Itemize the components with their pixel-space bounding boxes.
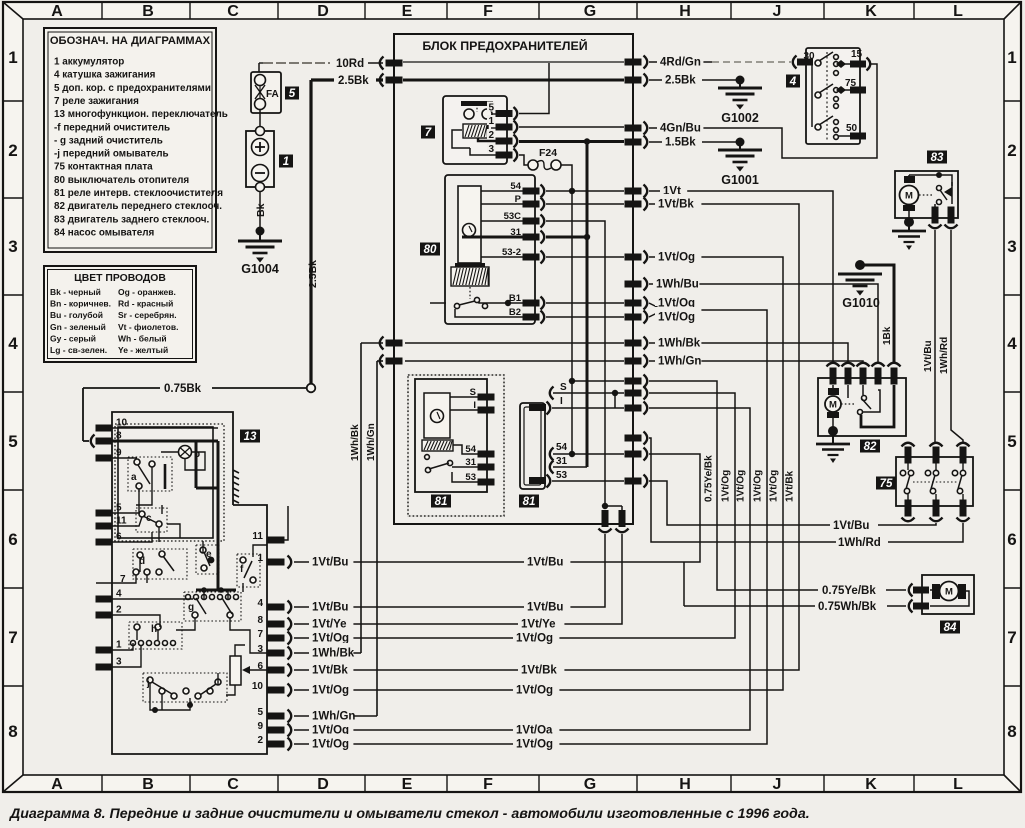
relay 7 pin 3 (487, 143, 495, 153)
svg-text:1Vt/Bu: 1Vt/Bu (312, 557, 348, 569)
label 1Vt/Bu left (309, 597, 353, 610)
svg-text:1: 1 (283, 156, 289, 168)
svg-text:1Wh/Rd: 1Wh/Rd (838, 537, 881, 549)
svg-text:F24: F24 (539, 147, 557, 159)
label 13 (240, 430, 260, 443)
junction F24 bus at 0.75Ye/Bk branch (569, 378, 575, 384)
svg-text:2: 2 (1007, 141, 1016, 160)
switch 13 resistor (230, 656, 241, 685)
svg-text:B: B (142, 776, 154, 793)
switch 13 contact d (133, 549, 187, 579)
connector fuse box right edge y303 1Vt/Og (625, 300, 642, 307)
svg-text:5: 5 (8, 432, 17, 451)
connector fuse box right edge y361 1Wh/Gn (625, 358, 642, 365)
svg-text:a: a (131, 472, 137, 483)
label 1Vt/Bu left (309, 552, 353, 565)
ground 83 motor (904, 217, 914, 227)
junction relay7 pin2 / vertical (584, 138, 590, 144)
svg-text:8: 8 (8, 722, 17, 741)
svg-text:I: I (473, 400, 476, 411)
svg-text:C: C (227, 776, 239, 793)
svg-text:6: 6 (1007, 530, 1016, 549)
label 81 socket (519, 495, 539, 508)
connector inline right below fuse box (619, 510, 626, 527)
connector fuse box right edge y204 1Vt/Bk (625, 201, 642, 208)
75 top pin x936 (930, 443, 943, 447)
wire 4Rd/Gn to ignition switch (649, 61, 712, 63)
84 pin 2 (909, 600, 913, 613)
switch 13 right pin 1 (268, 559, 285, 566)
ignition switch terminal 30 (793, 56, 797, 69)
label 84 (940, 621, 960, 634)
svg-text:2: 2 (257, 735, 263, 746)
wire 1Wh/Gn across fuse box (405, 360, 624, 362)
interval wiper relay 81 (408, 375, 504, 516)
wire relay7 pin2 to 1.5Bk (thick) (519, 140, 624, 143)
wire 1Vt/Og from switch 13 y744 (294, 743, 544, 745)
svg-text:1Vt/Bk: 1Vt/Bk (521, 665, 557, 677)
connector 81 socket (520, 403, 545, 489)
svg-text:D: D (317, 3, 329, 20)
connector fuse box right edge y191 1Vt (625, 188, 642, 195)
label 0.75Wh/Bk (815, 597, 887, 610)
svg-text:G1002: G1002 (721, 111, 759, 125)
wire 1Wh/Gn to wiper motor 82 pin3 (649, 361, 863, 364)
svg-text:6: 6 (8, 530, 17, 549)
connector 2.5Bk at fuse box left edge (311, 78, 383, 81)
svg-text:81: 81 (435, 496, 448, 508)
heater switch 80 (445, 175, 535, 324)
switch 13 left pin 3 (96, 664, 113, 671)
svg-text:4 катушка зажигания: 4 катушка зажигания (54, 70, 156, 81)
wire 81 pin I (552, 407, 624, 409)
svg-text:Ye - желтый: Ye - желтый (118, 345, 168, 355)
label 4Rd/Gn (657, 52, 703, 65)
svg-text:E: E (402, 776, 413, 793)
svg-text:81: 81 (523, 496, 536, 508)
wire Bk battery to ground (259, 191, 261, 233)
wire 0.75Bk to switch 13 pin 8 (83, 387, 306, 389)
washer pump 84 (922, 575, 974, 614)
connector fuse box right edge y454 (625, 451, 642, 458)
svg-text:Rd - красный: Rd - красный (118, 299, 173, 309)
svg-text:0.75Bk: 0.75Bk (164, 383, 202, 395)
svg-text:1Wh/Rd: 1Wh/Rd (939, 337, 950, 374)
connector fuse box right edge y284 1Wh/Bu (625, 281, 642, 288)
svg-text:3: 3 (488, 144, 494, 155)
svg-text:82 двигатель переднего стеклоо: 82 двигатель переднего стеклооч. (54, 201, 222, 212)
fuse F24 (528, 160, 538, 170)
wire 1Wh/Gn from switch 13 y716 (294, 715, 377, 717)
svg-text:1: 1 (8, 48, 17, 67)
svg-text:c: c (146, 513, 152, 524)
svg-text:0.75Ye/Bk: 0.75Ye/Bk (822, 585, 876, 597)
wire 2.5Bk across fuse box (403, 79, 624, 82)
75 top pin x963 (957, 443, 970, 447)
switch 13 right pin 8 (268, 621, 285, 628)
label 1Vt/Bu mid (524, 597, 570, 610)
svg-text:Bn - коричнев.: Bn - коричнев. (50, 299, 111, 309)
svg-text:e: e (206, 549, 212, 560)
label 1Vt/Bu mid (524, 552, 570, 565)
svg-text:83 двигатель заднего стеклооч.: 83 двигатель заднего стеклооч. (54, 214, 209, 225)
switch 13 internal bus (thick) (112, 440, 218, 443)
svg-text:10Rd: 10Rd (336, 58, 364, 70)
svg-text:7: 7 (425, 127, 432, 139)
svg-text:7 реле зажигания: 7 реле зажигания (54, 96, 139, 107)
wire 1Vt/Og down to switch 13 pin 10 (544, 257, 783, 690)
wire 1Vt/Og from switch 13 y638 (294, 637, 544, 639)
svg-text:Bu - голубой: Bu - голубой (50, 310, 103, 320)
wire 1Wh/Gn vertical to switch 13 pin 5 (377, 360, 383, 362)
svg-text:80 выключатель отопителя: 80 выключатель отопителя (54, 175, 189, 186)
svg-text:-j передний омыватель: -j передний омыватель (54, 149, 169, 160)
svg-text:53-2: 53-2 (502, 247, 521, 258)
label 1.5Bk (662, 132, 702, 145)
wire 81 pin 53 (552, 480, 624, 482)
svg-text:1Wh/Bu: 1Wh/Bu (656, 279, 699, 291)
label 83 (927, 151, 947, 164)
svg-text:5 доп. кор. с предохранителями: 5 доп. кор. с предохранителями (54, 83, 211, 94)
switch 13 contact f (237, 554, 260, 587)
svg-text:Og - оранжев.: Og - оранжев. (118, 287, 176, 297)
wire FA to battery (259, 109, 261, 131)
svg-text:11: 11 (116, 516, 127, 527)
svg-text:1Vt/Bu: 1Vt/Bu (923, 340, 934, 372)
svg-text:31: 31 (465, 457, 476, 468)
svg-text:2: 2 (488, 130, 494, 141)
svg-text:1: 1 (1007, 48, 1016, 67)
label 0.75Ye/Bk (818, 581, 886, 594)
svg-text:1: 1 (488, 116, 494, 127)
svg-text:50: 50 (846, 123, 858, 134)
label 1Vt/Og left (309, 628, 353, 641)
label 1Wh/Bk left (309, 643, 353, 656)
svg-text:3: 3 (116, 657, 122, 668)
label 1Vt/Og left (309, 680, 353, 693)
switch 13 left pin 9 (96, 455, 113, 462)
svg-text:M: M (905, 191, 913, 202)
label 1Vt (660, 181, 687, 194)
svg-text:K: K (865, 776, 877, 793)
wire 10Rd from fuse FA to fuse box (263, 62, 330, 64)
svg-text:I: I (560, 396, 563, 407)
ignition switch terminal 75 (850, 87, 866, 94)
svg-text:2: 2 (116, 605, 122, 616)
connector fuse box right edge y408 (625, 405, 642, 412)
svg-text:53C: 53C (504, 211, 522, 222)
svg-text:8: 8 (257, 615, 263, 626)
83 pin right (948, 207, 955, 224)
svg-text:1Vt/Og: 1Vt/Og (721, 470, 732, 502)
svg-text:10: 10 (116, 418, 128, 429)
svg-text:54: 54 (510, 181, 521, 192)
switch 13 lamp b (179, 446, 192, 459)
wire 0.75Ye/Bk to washer pump 84 (572, 380, 624, 382)
svg-text:2.5Bk: 2.5Bk (307, 260, 319, 288)
connector fuse box right edge y438 (625, 435, 642, 442)
svg-text:30: 30 (803, 51, 815, 62)
svg-text:1Vt/Og: 1Vt/Og (516, 685, 553, 697)
83 pin left (932, 207, 939, 224)
svg-text:13 многофункцион. переключател: 13 многофункцион. переключатель (54, 109, 228, 120)
switch 13 left pin 2 (96, 612, 113, 619)
junction S/I (612, 390, 618, 396)
svg-text:31: 31 (556, 456, 568, 467)
connector 10Rd at fuse box left edge (380, 57, 384, 70)
svg-text:3: 3 (8, 237, 17, 256)
svg-text:9: 9 (116, 448, 122, 459)
wire 1Vt/Bk from switch 13 y670 (294, 669, 544, 671)
wire 1Wh/Bk vertical to switch 13 pin 3 (361, 342, 383, 344)
svg-text:D: D (317, 776, 329, 793)
svg-text:2: 2 (8, 141, 17, 160)
switch 13 right pin 3 (268, 650, 285, 657)
svg-text:75: 75 (845, 78, 857, 89)
switch 13 internal wires (112, 427, 218, 429)
svg-text:83: 83 (931, 152, 944, 164)
svg-text:4: 4 (116, 589, 122, 600)
wire 1Vt/Bu from switch 13 y607 (294, 606, 544, 608)
svg-text:1Vt/Bu: 1Vt/Bu (527, 602, 563, 614)
wire to switch 13 pin 1 (1Vt/Bu) (544, 454, 700, 562)
wire 1Vt to wiper motor 82 pin1 (649, 191, 833, 364)
svg-text:Sr - серебрян.: Sr - серебрян. (118, 310, 177, 320)
ground G1002 (736, 76, 745, 85)
svg-text:4: 4 (789, 76, 797, 88)
svg-text:Wh - белый: Wh - белый (118, 333, 167, 343)
svg-text:1Wh/Bk: 1Wh/Bk (312, 648, 355, 660)
curly join 1Vt/Og pair (649, 303, 659, 308)
connector fuse box right edge y381 (625, 378, 642, 385)
svg-text:1Vt/Og: 1Vt/Og (312, 633, 349, 645)
switch 13 right pin 2 (268, 741, 285, 748)
svg-text:FA: FA (266, 89, 279, 100)
wire 1Vt/Og from switch 13 y690 (294, 689, 544, 691)
svg-text:4: 4 (1007, 334, 1017, 353)
75 top pin x908 (902, 443, 915, 447)
svg-text:75 контактная плата: 75 контактная плата (54, 162, 153, 173)
svg-text:1Vt/Bk: 1Vt/Bk (785, 470, 796, 502)
switch 13 contact e (196, 545, 219, 574)
svg-text:g: g (188, 602, 194, 613)
svg-text:G: G (584, 3, 596, 20)
wire thick 1.5Bk bus vertical (586, 142, 589, 468)
wire relay7 pin5 to 10Rd (519, 63, 549, 114)
svg-text:B: B (142, 3, 154, 20)
wire relay7 pin1 to 4Gn/Bu connector (519, 126, 624, 128)
switch 13 right pin 9 (268, 727, 285, 734)
svg-text:2.5Bk: 2.5Bk (665, 75, 696, 87)
svg-text:1Wh/Bk: 1Wh/Bk (658, 338, 701, 350)
svg-text:A: A (51, 3, 63, 20)
svg-text:b: b (194, 449, 200, 460)
svg-text:7: 7 (1007, 628, 1016, 647)
svg-text:5: 5 (257, 707, 263, 718)
switch 13 contact h (129, 622, 182, 649)
label 1Vt/Bk left (309, 660, 353, 673)
svg-text:6: 6 (116, 532, 122, 543)
svg-text:S: S (560, 382, 567, 393)
svg-text:Gn - зеленый: Gn - зеленый (50, 322, 106, 332)
label 5 (285, 87, 299, 100)
svg-text:80: 80 (424, 244, 437, 256)
wire F24 to vertical bus (561, 165, 572, 454)
connector fuse box right edge y393 (625, 390, 642, 397)
82 pin 2 (842, 363, 855, 367)
label 75 (876, 477, 896, 490)
contact plate 75 (896, 457, 973, 506)
svg-text:1Vt/Bk: 1Vt/Bk (658, 199, 694, 211)
wire 80 pin54 to 1Vt connector (546, 190, 624, 192)
label 80 (420, 243, 440, 256)
wire I to switch 13 pin 9 (544, 408, 750, 730)
label 4 (786, 75, 800, 88)
svg-text:84 насос омывателя: 84 насос омывателя (54, 227, 154, 238)
svg-text:G: G (584, 776, 596, 793)
wire 1.5Bk to G1001 (649, 141, 740, 143)
multifunction switch 13 outline (112, 412, 267, 754)
svg-text:БЛОК ПРЕДОХРАНИТЕЛЕЙ: БЛОК ПРЕДОХРАНИТЕЛЕЙ (422, 38, 587, 53)
label 1Vt/Ye left (309, 614, 353, 627)
svg-text:53: 53 (556, 470, 568, 481)
wire 1Wh/Bk from switch 13 y653 (294, 652, 361, 654)
82 pin 5 (888, 363, 901, 367)
connector fuse box right edge y142 1.5Bk (625, 139, 642, 146)
wire 1Wh/Bu to wiper motor 82 pin4 (649, 284, 878, 364)
svg-text:1Wh/Gn: 1Wh/Gn (658, 356, 701, 368)
switch 13 right pin 11 (268, 537, 285, 544)
switch 13 contact c (136, 508, 167, 532)
junction F24 bus at 54 (569, 451, 575, 457)
wire 0.75Wh/Bk to washer pump 84 (683, 562, 685, 606)
label 2.5Bk top (334, 73, 376, 86)
connector fuse box right edge y481 (625, 478, 642, 485)
wire 10Rd/4Rd-Gn across fuse box (403, 61, 624, 63)
battery (component 1) (246, 131, 274, 187)
svg-text:15: 15 (851, 49, 863, 60)
connector inline left below fuse box (602, 510, 609, 527)
wire 80 pin53-2 to 1Vt/Og connector (546, 256, 624, 258)
wire relay7 pin3 to fuse F24 (519, 155, 528, 165)
wire 1Vt/Bk down to switch 13 pin 6 (544, 204, 799, 670)
wire 1Vt/Og pair to switch 13 pin 2 (544, 310, 767, 744)
label 4Gn/Bu (657, 118, 703, 131)
svg-text:h: h (151, 624, 157, 635)
relay 7 pin 2 (487, 129, 495, 139)
wire 1Bk G1010 to 82 pin5 (860, 265, 894, 364)
svg-text:5: 5 (289, 88, 296, 100)
label 1Vt/Og left (309, 720, 353, 733)
relay 7 pin 5 (487, 102, 495, 112)
connector fuse box right edge y62 4Rd/Gn (625, 59, 642, 66)
switch 13 contact j (143, 673, 227, 702)
switch 13 right pin 10 (268, 687, 285, 694)
svg-text:7: 7 (8, 628, 17, 647)
wire 1Wh/Rd to contact plate 75 (649, 438, 963, 542)
wire inline right to switch 13 pin 8 (1Vt/Ye) (544, 534, 622, 624)
label 1Wh/Bu (653, 274, 699, 287)
75 bottom pin x936 (933, 500, 940, 517)
svg-text:1Vt/Og: 1Vt/Og (658, 312, 695, 324)
svg-text:Gy - серый: Gy - серый (50, 333, 96, 343)
svg-text:G1004: G1004 (241, 262, 279, 276)
switch 13 left pin 1 (96, 647, 113, 654)
svg-text:4Rd/Gn: 4Rd/Gn (660, 57, 701, 69)
ignition switch 4 (806, 48, 860, 144)
ground 82 motor (828, 426, 838, 436)
connector fuse box right edge y257 1Vt/Og (625, 254, 642, 261)
wire 80 pin31 to thick ground bus (546, 236, 587, 239)
svg-text:5: 5 (488, 103, 494, 114)
svg-text:1: 1 (116, 640, 122, 651)
wire 1Vt/Ye from switch 13 y624 (294, 623, 544, 625)
svg-text:82: 82 (864, 441, 877, 453)
wire 80 pin53C down to bottom connectors (546, 221, 605, 506)
label 1Vt/Og mid (513, 680, 559, 693)
svg-text:1Wh/Gn: 1Wh/Gn (366, 423, 377, 461)
svg-text:8: 8 (1007, 722, 1016, 741)
svg-text:G1010: G1010 (842, 296, 880, 310)
svg-text:84: 84 (944, 622, 957, 634)
svg-text:B2: B2 (509, 307, 521, 318)
84 pin 1 (909, 584, 913, 597)
switch 13 left pin 10 (96, 425, 113, 432)
svg-text:G1001: G1001 (721, 173, 759, 187)
junction 83 (936, 172, 942, 178)
switch 13 right pin 4 (268, 604, 285, 611)
svg-text:4: 4 (257, 598, 263, 609)
svg-text:54: 54 (556, 442, 568, 453)
switch 13 pin 7 stub (96, 582, 134, 584)
rear wiper motor 83 (895, 171, 958, 218)
switch 13 contact g (184, 592, 241, 621)
switch 13 right pin 7 (268, 635, 285, 642)
wire inline left to switch 13 pin 4 (1Vt/Bu) (544, 534, 605, 607)
svg-text:9: 9 (257, 721, 263, 732)
relay 7 (реле зажигания) (443, 96, 507, 164)
label 1Wh/Rd to 75 (836, 532, 888, 545)
wire 2.5Bk to G1002 (649, 79, 740, 81)
switch 13 mechanical link (233, 470, 239, 473)
svg-text:Диаграмма 8. Передние и задние: Диаграмма 8. Передние и задние очистител… (9, 806, 810, 822)
75 bottom pin x908 (905, 500, 912, 517)
svg-text:81 реле интерв. стеклоочистите: 81 реле интерв. стеклоочистителя (54, 188, 223, 199)
svg-text:54: 54 (465, 444, 476, 455)
switch 13 pin 8 bracket (91, 435, 95, 448)
svg-text:M: M (829, 400, 837, 411)
svg-text:1Vt/Og: 1Vt/Og (516, 633, 553, 645)
svg-text:K: K (865, 3, 877, 20)
svg-text:1Vt/Og: 1Vt/Og (658, 252, 695, 264)
82 pin 4 (872, 363, 885, 367)
connector 1Wh/Gn fuse box left edge (380, 355, 384, 368)
svg-text:1Vt/Bu: 1Vt/Bu (833, 520, 869, 532)
wire 1Wh/Rd from 83 to 75 (951, 230, 963, 444)
svg-text:5: 5 (1007, 432, 1016, 451)
svg-text:P: P (515, 194, 522, 205)
82 pin 3 (857, 363, 870, 367)
svg-text:1Vt/Bu: 1Vt/Bu (527, 557, 563, 569)
wire 1Wh/Bk to wiper motor 82 pin2 (649, 343, 848, 364)
front wiper motor 82 (818, 378, 906, 436)
switch 13 left pin 6 (96, 539, 113, 546)
junction 53C split (602, 503, 608, 509)
svg-text:31: 31 (510, 227, 521, 238)
junction F24 bus at 1Vt (569, 188, 575, 194)
svg-text:F: F (483, 3, 493, 20)
label 1Vt/Og (655, 293, 701, 306)
